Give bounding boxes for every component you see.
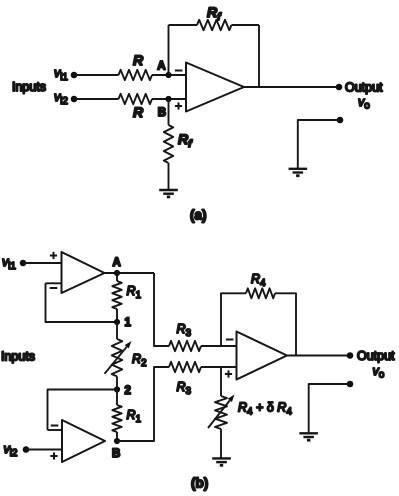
svg-text:A: A: [157, 61, 165, 73]
resistor Rf feedback: [197, 20, 232, 30]
svg-text:Output: Output: [345, 81, 383, 95]
svg-text:R4 + δ R4: R4 + δ R4: [238, 401, 292, 418]
resistor R4+dR4 adjustable: [215, 396, 227, 429]
resistor R (top, series vi1): [119, 70, 153, 80]
wire minus input b2: [48, 429, 63, 431]
svg-text:R3: R3: [177, 380, 192, 397]
minus sign b2: [51, 425, 59, 427]
wire node1 to R2: [116, 322, 118, 339]
label (a): [190, 208, 207, 223]
wire node A up to feedback: [168, 25, 170, 75]
plus sign b3: [225, 370, 232, 377]
wire B down to Rf: [168, 99, 170, 125]
resistor R1 top: [112, 281, 121, 309]
label vi1 b: [2, 255, 16, 272]
resistor Rf to ground: [164, 125, 173, 163]
plus sign b1: [50, 252, 57, 259]
svg-text:B: B: [158, 107, 166, 119]
wire R to op-amp minus input: [152, 74, 186, 76]
resistor R1 bottom: [112, 405, 121, 432]
label Rf bottom: [178, 131, 193, 150]
output reference node a: [337, 117, 344, 124]
wire feedback b1: [46, 283, 118, 322]
wire reference b: [309, 384, 350, 433]
wire apex U2 to rail: [105, 272, 155, 274]
minus sign a: [175, 70, 183, 72]
ground a right: [289, 169, 308, 176]
label R3 bottom: [177, 380, 192, 397]
label R3 top: [177, 322, 192, 339]
wire output a: [244, 86, 339, 88]
wire A to R1: [116, 273, 118, 281]
op-amp U1: [186, 63, 244, 112]
ground a left: [159, 190, 178, 197]
arrow R2: [105, 341, 132, 374]
wire R to op-amp plus input: [152, 98, 186, 100]
ground b left: [212, 458, 231, 465]
label vo a: [358, 95, 370, 112]
svg-text:vi2: vi2: [54, 90, 68, 107]
minus sign b3: [226, 339, 234, 341]
svg-text:R3: R3: [177, 322, 192, 339]
svg-text:B: B: [112, 448, 120, 460]
svg-text:R1: R1: [127, 284, 142, 301]
node A: [165, 72, 171, 78]
svg-text:R: R: [133, 104, 144, 120]
label Output b: [357, 349, 395, 363]
label R2: [132, 352, 147, 369]
label vi1: [54, 66, 68, 83]
label (b): [191, 476, 208, 491]
wire R4dR4 to ground: [220, 429, 222, 458]
wire feedback top right: [232, 24, 260, 26]
svg-text:vo: vo: [358, 95, 370, 112]
wire A rail to R3 top: [154, 273, 169, 346]
label 2: [125, 385, 131, 397]
resistor R4 feedback: [246, 288, 275, 298]
label A b: [113, 257, 121, 269]
wire vi1 b: [23, 262, 62, 264]
svg-text:Inputs: Inputs: [12, 80, 46, 94]
wire minus input b1: [46, 282, 62, 284]
svg-text:Rf: Rf: [178, 131, 193, 150]
wire Rf to ground: [168, 163, 170, 190]
plus sign a: [175, 102, 182, 109]
wire R1 to node B: [116, 432, 118, 441]
label A: [157, 61, 165, 73]
wire vi2 to R: [74, 98, 119, 100]
input node vi1 b: [20, 260, 27, 267]
label R bottom: [133, 104, 144, 120]
resistor R3 bottom: [169, 362, 201, 372]
svg-text:(b): (b): [191, 476, 208, 491]
wire output b: [287, 355, 350, 357]
label Output a: [345, 81, 383, 95]
input node vi2: [71, 96, 78, 103]
output reference node b: [347, 381, 354, 388]
label 1: [125, 317, 132, 329]
node A b: [114, 270, 120, 276]
arrow R4+dR4: [208, 395, 235, 429]
wire R2 to node 2: [116, 376, 118, 389]
label R4+dR4: [238, 401, 292, 418]
label R1 bottom: [127, 408, 142, 425]
label R4: [251, 272, 266, 289]
wire node2 to R1 bottom: [116, 390, 118, 406]
wire R1 to node 1: [116, 309, 118, 322]
svg-text:R2: R2: [132, 352, 147, 369]
op-amp U2 buffer top: [62, 252, 105, 293]
wire plus to R4dR4: [220, 367, 222, 396]
resistor R (bottom, series vi2): [119, 94, 153, 104]
svg-text:Rf: Rf: [207, 4, 222, 23]
op-amp U4 output: [237, 332, 288, 380]
wire R4 feedback right: [275, 293, 296, 355]
wire reference a: [298, 120, 340, 169]
node B: [165, 96, 171, 102]
resistor R2 adjustable: [112, 339, 123, 376]
svg-text:Inputs: Inputs: [1, 350, 35, 364]
svg-text:vi1: vi1: [54, 66, 68, 83]
wire B rail to R3 bottom: [117, 367, 169, 441]
output node b: [347, 352, 354, 359]
wire R3 top to minus input: [201, 345, 237, 347]
output node a: [336, 84, 343, 91]
wire feedback top left: [169, 24, 198, 26]
node 2: [114, 386, 120, 392]
label Inputs b: [1, 350, 35, 364]
wire R4 feedback left: [221, 293, 246, 346]
label R top: [133, 52, 144, 68]
svg-text:vi2: vi2: [3, 442, 17, 459]
svg-text:Output: Output: [357, 349, 395, 363]
op-amp U3 buffer bottom: [62, 420, 105, 462]
label vi2: [54, 90, 68, 107]
svg-text:1: 1: [125, 317, 132, 329]
label vi2 b: [3, 442, 17, 459]
label vo b: [373, 364, 385, 381]
svg-text:(a): (a): [190, 208, 207, 223]
ground b right: [299, 433, 318, 440]
plus sign b2: [50, 452, 57, 459]
wire feedback down to output: [258, 25, 260, 87]
minus sign b1: [50, 287, 58, 289]
svg-text:R1: R1: [127, 408, 142, 425]
input node vi2 b: [23, 446, 30, 453]
svg-text:A: A: [113, 257, 121, 269]
wire R3 bottom to plus input: [201, 366, 237, 368]
node B b: [114, 438, 120, 444]
svg-text:R: R: [133, 52, 144, 68]
input node vi1: [71, 72, 78, 79]
wire vi2 b: [26, 449, 62, 451]
svg-text:2: 2: [125, 385, 131, 397]
label Inputs a: [12, 80, 46, 94]
label B b: [112, 448, 120, 460]
label B: [158, 107, 166, 119]
wire feedback b2: [48, 390, 118, 431]
svg-text:vi1: vi1: [2, 255, 16, 272]
wire vi1 to R: [74, 74, 119, 76]
node 1: [114, 319, 120, 325]
label Rf top: [207, 4, 222, 23]
label R1 top: [127, 284, 142, 301]
resistor R3 top: [169, 341, 201, 351]
svg-text:R4: R4: [251, 272, 266, 289]
svg-text:vo: vo: [373, 364, 385, 381]
